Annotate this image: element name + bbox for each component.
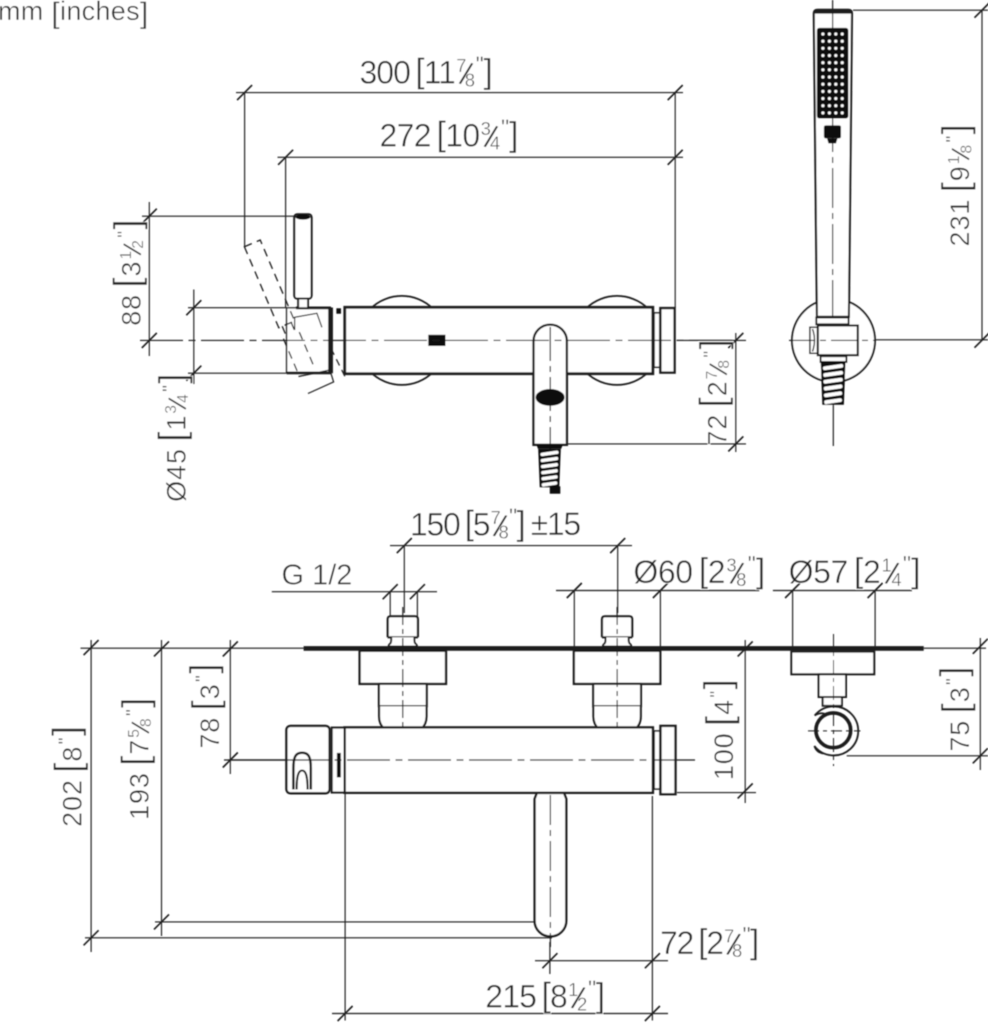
svg-text:78 [​3"​]: 78 [​3"​] — [183, 663, 226, 749]
extension lines (231) — [853, 9, 988, 11]
dimension 215 [8 1/2"] — [332, 1013, 668, 1015]
union nut — [379, 684, 427, 706]
front view: black temperature marker on body — [428, 335, 445, 346]
wand centerline — [832, 0, 834, 362]
extension line left (300) — [244, 93, 246, 248]
hand shower holder: wall escutcheon (side) — [791, 652, 874, 675]
extension lines (d45) — [188, 307, 286, 309]
dimension 202 [8"] — [90, 640, 92, 952]
side view: body centerline — [228, 759, 286, 761]
dimension 150 [5 7/8"] +-15 line — [390, 545, 632, 547]
dimension diameter 57 [2 1/4"] — [773, 590, 912, 592]
extension line right (300/272) — [674, 93, 676, 308]
lever neck stub — [298, 299, 308, 309]
wall escutcheon plate — [574, 651, 660, 684]
front view: body end cap — [660, 308, 674, 373]
extension line left (272) — [285, 157, 287, 308]
side view: spout tube (rounded tip) — [535, 793, 567, 936]
front view: index mark on collar — [336, 308, 341, 313]
G1/2 connection nipple — [602, 616, 632, 637]
front view: faucet body tube — [345, 307, 653, 373]
nipple centerline — [402, 607, 404, 743]
bracket circle horizontal centerline — [789, 339, 876, 341]
dimension 75 [3"] — [979, 638, 981, 770]
svg-text:88 [​31/2"​]: 88 [​31/2"​] — [107, 218, 149, 325]
Dornbracht D logo (rotated) — [293, 753, 310, 790]
holder hook inner ring (thick) — [816, 713, 851, 748]
front view: lever handle (vertical position) — [294, 214, 311, 298]
wand control button — [824, 125, 841, 138]
dimension 300 [11 7/8"] line — [236, 92, 683, 94]
front view: left wall rose (escutcheon circle) — [357, 296, 446, 385]
dashed edge of tilted lever near collar — [331, 349, 346, 379]
front view: body end ring — [654, 313, 660, 367]
holder clip (left) — [810, 327, 818, 353]
extension lines (G1/2 nipple edges) — [389, 592, 391, 617]
connection cone — [379, 706, 426, 737]
front view: collar ring between block and body — [331, 308, 333, 374]
wand top dark rim — [815, 10, 851, 13]
hand shower hose coil (top right) — [821, 362, 846, 405]
svg-text:300 [​117/8"​]: 300 [​117/8"​] — [360, 51, 492, 92]
spout aerator dark ellipse — [536, 389, 565, 406]
G 1/2 leader line — [272, 591, 437, 593]
wall extension thin left — [81, 647, 304, 649]
dimension 272 [10 3/4"] line — [278, 156, 684, 158]
dimension 231 [9 1/8"] line — [981, 10, 983, 340]
spray face (black with white nozzle dots) — [817, 28, 848, 119]
holder stem lower — [823, 697, 842, 706]
nipple neck — [603, 637, 631, 646]
svg-text:272 [​103/4"​]: 272 [​103/4"​] — [380, 114, 518, 155]
hand shower wand (tapered) — [814, 10, 852, 317]
holder stem — [819, 674, 846, 697]
dimension diameter 45 [1 3/4"] line — [193, 290, 195, 385]
spout hose coil — [538, 449, 561, 488]
collar index bar — [337, 753, 341, 778]
svg-text:75 [​3"​]: 75 [​3"​] — [933, 666, 976, 752]
svg-text:Ø57 [​21/4"​]: Ø57 [​21/4"​] — [789, 551, 921, 592]
side view: handle cap with logo — [286, 726, 329, 793]
extension: ring edge down — [344, 793, 346, 1021]
side view: body end cap — [661, 726, 676, 794]
front view: right wall rose (escutcheon circle) — [573, 296, 662, 385]
svg-text:G 1/2: G 1/2 — [282, 560, 353, 592]
dimension diameter 60 [2 3/8"] — [556, 590, 759, 592]
spout side centerline — [549, 795, 551, 947]
dimension 72 [2 7/8"] (bottom) — [535, 960, 668, 962]
svg-text:Ø60 [​23/8"​]: Ø60 [​23/8"​] — [633, 551, 765, 592]
holder lower collar — [821, 356, 847, 362]
dimension 88 [3 1/2"] line — [148, 202, 150, 356]
spout centerline — [549, 327, 551, 470]
nipple centerline — [616, 607, 618, 743]
front view: spout tube — [534, 325, 567, 445]
side view: faucet body tube — [345, 727, 653, 792]
hook centerlines — [808, 730, 861, 732]
svg-text:193 [​75/8"​]: 193 [​75/8"​] — [115, 697, 157, 820]
holder block — [818, 326, 858, 356]
front view: body centerline (dash-dot) — [140, 339, 736, 341]
holder hook outer profile (open C) — [814, 706, 858, 755]
extension lines (72) — [677, 339, 746, 341]
wall escutcheon plate — [360, 651, 446, 684]
nipple neck — [389, 637, 417, 646]
front view: cartridge block (handle base) — [287, 308, 330, 373]
side view: collar ring — [332, 728, 345, 793]
union nut — [593, 684, 641, 706]
svg-text:mm [inches]: mm [inches] — [0, 0, 149, 30]
wall extension thin right — [924, 647, 986, 649]
svg-text:100 [​4"​]: 100 [​4"​] — [697, 678, 740, 780]
lever top dark rim — [295, 214, 310, 219]
side view: body end ring — [654, 731, 660, 789]
connection cone — [593, 706, 640, 737]
svg-text:231 [​91/8"​]: 231 [​91/8"​] — [935, 123, 977, 246]
spout hose nut (dark band) — [536, 445, 562, 449]
spout hose end tab — [550, 486, 561, 493]
hand shower: wall bracket circle — [792, 299, 875, 382]
svg-text:Ø45 [​13/4"​]: Ø45 [​13/4"​] — [152, 373, 194, 502]
svg-text:215 [​81/2"​]: 215 [​81/2"​] — [485, 976, 604, 1017]
wall line (thick) — [304, 646, 924, 651]
tilted lever lower outline (solid) — [299, 370, 334, 394]
hose line below coil — [832, 405, 834, 446]
svg-text:72 [​27/8"​]: 72 [​27/8"​] — [660, 922, 758, 963]
tilted lever base square (solid) — [295, 313, 322, 330]
extension: body end down to 215 — [651, 796, 653, 1021]
front view: dashed lever (alternate tilted position) — [244, 240, 314, 375]
extension: spout centerline down — [549, 942, 551, 974]
dimension 193 [7 5/8"] — [161, 640, 163, 936]
extension line top (88) at lever top — [142, 215, 296, 217]
dimension 78 [3"] — [229, 640, 231, 774]
extension lines (150) — [403, 546, 405, 613]
svg-text:150 [​57/8"​]±15: 150 [​57/8"​]±15 — [410, 504, 580, 545]
wand bottom collar — [816, 318, 848, 325]
svg-text:72 [​27/8"​]: 72 [​27/8"​] — [693, 338, 735, 445]
dimension 72 [2 7/8"] line (front view right) — [735, 333, 737, 452]
svg-text:202 [​8"​]: 202 [​8"​] — [46, 725, 89, 827]
G1/2 connection nipple — [388, 616, 418, 637]
dimension 100 [4"] — [744, 640, 746, 803]
